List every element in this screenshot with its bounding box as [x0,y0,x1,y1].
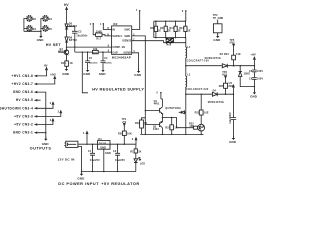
wire +5V row7 with flag [37,119,54,125]
wire drain path [186,94,201,134]
svg-text:C8: C8 [249,70,253,73]
svg-text:+5V CN3-3: +5V CN3-3 [14,114,33,118]
svg-text:CAP: CAP [112,52,118,55]
resistor R10 [169,20,181,38]
transistor Q4 [58,48,69,55]
svg-text:10u/250v: 10u/250v [76,35,88,38]
trimmer R4 [43,16,53,21]
node emitter junctions [162,117,173,119]
power flag +5V [132,137,137,144]
svg-text:ISENSE: ISENSE [122,40,132,43]
power flag HV2 row2 [37,72,56,84]
svg-text:DC POWER INPUT: DC POWER INPUT [58,182,99,186]
transistor Q1 [145,93,162,114]
node bottom rail junctions [81,171,119,173]
wire trimmer mid bus [41,19,43,37]
net flag Q1 collector [156,92,161,95]
svg-text:R8: R8 [150,27,154,30]
power flag HV top [64,3,69,10]
svg-text:R20: R20 [135,122,140,125]
svg-text:C2: C2 [113,150,117,153]
net flag bank right [182,10,187,21]
ground dc input [77,172,85,181]
svg-text:Q3 BST100A: Q3 BST100A [165,107,181,110]
svg-text:1u0/63v: 1u0/63v [104,63,112,65]
testpoint TP5 HV2 with resistor R24 [224,39,241,66]
svg-text:R1: R1 [130,151,134,154]
svg-text:LED: LED [140,162,145,165]
capacitor C2 [113,144,125,171]
svg-text:D3: D3 [220,53,224,56]
trimmer R3 [27,26,37,31]
svg-text:78L05: 78L05 [99,143,107,146]
power flag +HV output [250,53,256,70]
svg-text:10K: 10K [127,133,132,136]
wire IC pin2 SWE drive riser [132,34,146,135]
svg-text:IC2: IC2 [113,22,118,26]
resistor R22 gate [189,122,198,129]
ground C7 [229,136,237,144]
svg-text:+HV2 CN3-7: +HV2 CN3-7 [11,82,33,86]
svg-text:L2: L2 [187,73,191,76]
wire CN3 ground bus [37,92,46,138]
wire IC pin1 SWC riser to flag [132,9,141,29]
svg-text:GND: GND [213,38,221,42]
svg-text:10E: 10E [93,48,98,51]
transistor Q2 [145,122,162,135]
svg-text:1E: 1E [187,29,190,32]
ground TP2 [213,34,221,42]
diode D4 [208,90,224,104]
svg-text:GND: GND [62,72,70,76]
svg-text:R17: R17 [96,38,101,41]
connector CN3 pin arrows [34,75,38,134]
node rail junctions [145,134,202,136]
wire bottom rail dc input [78,146,136,171]
svg-text:GND: GND [77,176,85,180]
LED D1 [134,158,145,172]
svg-text:HV: HV [229,82,233,85]
svg-text:HV SET: HV SET [46,43,62,47]
svg-text:10E: 10E [204,112,209,115]
power flag +12V [83,131,88,145]
svg-text:R25: R25 [219,85,224,88]
svg-text:1K: 1K [70,62,73,65]
connector CN3 pin rows [0,74,33,135]
svg-text:R2: R2 [33,18,37,21]
svg-text:HV: HV [44,64,48,68]
node feedback junctions [74,46,76,48]
net flag 6 to IC pin6 [100,23,112,30]
wire IC pin4 agnd column [132,50,139,71]
svg-text:100V: 100V [257,70,263,73]
svg-text:10u/25V: 10u/25V [115,159,125,162]
svg-text:100u/63v: 100u/63v [89,63,99,65]
svg-text:R7A: R7A [167,43,172,46]
node wire A junctions [185,65,255,67]
svg-text:12V DC IN: 12V DC IN [58,158,75,162]
resistor R18 [93,48,99,54]
resistor R20 [135,118,148,135]
wire shutdown row with flag [37,102,54,108]
ground C5 [83,68,91,76]
node Q1 base [145,110,147,112]
node HV rail junctions [66,26,68,48]
svg-text:GND: GND [100,146,106,149]
svg-text:R3: R3 [33,28,37,31]
svg-text:15KE: 15KE [244,73,251,76]
zener D6 [65,37,77,43]
svg-text:GND CN3-6: GND CN3-6 [13,90,33,94]
connector X1 dc jack [58,141,78,161]
svg-text:R26: R26 [118,133,123,136]
svg-text:GND: GND [229,140,237,144]
wire comp feedback to IC pin5 [67,46,112,48]
regulator IC1 78L05 [98,138,111,171]
wire A main HV output rail [186,65,255,67]
svg-text:COMP -VE: COMP -VE [112,46,125,49]
resistor R1 [130,144,141,159]
net flag HV feedback [229,82,235,94]
node bus junctions [45,132,47,134]
ground IC pin4 [134,69,142,77]
ground Q4 emitter [62,67,70,76]
capacitor C1 [88,144,100,171]
svg-text:GND CN3-1: GND CN3-1 [13,131,33,135]
wire +5V row6 with flag [37,110,62,116]
resistor R8 [150,20,161,38]
net flag 2 with wire to R17 [90,23,96,35]
node wire B junctions [185,93,234,95]
transistor Q3 mosfet [198,124,205,134]
svg-text:COILCRAFT-220: COILCRAFT-220 [186,88,209,91]
resistor R19 [61,55,73,69]
svg-text:2: 2 [132,138,134,141]
wire 12V top rail [78,143,136,145]
svg-text:1K: 1K [174,126,177,129]
capacitor C9 [249,77,263,91]
svg-text:IN: IN [112,28,115,31]
svg-text:R23: R23 [195,112,200,115]
ground HV caps [250,90,258,98]
testpoint TP1 [122,118,127,144]
capacitor C4 [101,52,113,68]
wire trimmer to gnd [24,30,41,32]
svg-text:1: 1 [136,9,138,12]
capacitor C3 [67,27,88,52]
svg-text:HV CN3-5: HV CN3-5 [16,98,33,102]
svg-text:MUR140T3G: MUR140T3G [205,57,221,60]
op-amp U1 IC2 MC34063 box [112,22,132,60]
svg-text:TP_GND: TP_GND [213,17,224,20]
wire sense bank bottom rail [154,37,186,39]
resistor R17 100K [96,31,112,41]
diode D8 [179,111,186,114]
ground CN3 [42,137,50,147]
wire sense bank lower rail [164,38,186,46]
svg-text:MPSA: MPSA [58,51,66,54]
diode D3 [205,53,228,68]
svg-text:GND: GND [37,38,45,42]
wire HV rail [66,10,68,50]
capacitor C8 [249,70,263,78]
svg-text:GND: GND [105,152,111,155]
svg-text:SWE: SWE [124,35,130,38]
svg-text:C3: C3 [78,31,82,34]
svg-text:+HV: +HV [250,53,256,57]
wire IC cap rail with corner [82,52,88,93]
svg-text:HV REGULATED SUPPLY: HV REGULATED SUPPLY [92,88,144,92]
svg-text:MC34063AP: MC34063AP [112,56,131,60]
svg-text:GND: GND [250,95,258,99]
wire IC pin7 isense [132,38,164,42]
svg-text:OUTPUTS: OUTPUTS [30,146,52,150]
node trimmer mid junction [40,31,42,33]
svg-text:1: 1 [100,23,102,26]
wire sense bank top rail [154,21,186,37]
resistor R21 [165,118,177,135]
svg-text:R4: R4 [49,18,53,21]
zener D5 [65,22,77,29]
resistor R9 [160,20,171,38]
svg-text:GND: GND [99,72,107,76]
svg-text:10E: 10E [189,125,194,128]
svg-text:100V: 100V [257,78,263,81]
svg-text:AGND: AGND [123,52,131,55]
svg-text:R19: R19 [61,62,66,65]
svg-text:1uF/400V: 1uF/400V [229,112,232,124]
wire R18 net [75,51,112,53]
svg-text:IC1: IC1 [98,138,103,141]
svg-text:R18: R18 [93,53,98,55]
ground HV SET [37,34,45,42]
svg-text:C4: C4 [104,57,108,60]
svg-text:GND: GND [83,72,91,76]
svg-text:C9: C9 [249,77,253,80]
svg-text:SWC: SWC [124,28,130,31]
wire emitter node [162,114,193,128]
svg-text:47u/25V: 47u/25V [90,159,100,162]
inductor L1 [185,46,209,66]
svg-text:R24: R24 [224,53,229,56]
testpoint TP3 HV1 with resistor R25 [219,71,234,94]
svg-text:51K: 51K [236,53,241,56]
inductor L2 [185,66,208,95]
svg-text:HV2: HV2 [51,72,57,76]
svg-text:+5V CN3-2: +5V CN3-2 [14,123,33,127]
ground C4 [99,68,107,76]
node Q2 base [145,124,147,126]
node reg rail junctions [92,143,125,145]
resistor R11 [179,20,191,38]
trimmer R2 [27,16,37,21]
svg-text:MUR140T3G: MUR140T3G [208,101,224,104]
svg-text:6: 6 [182,10,184,13]
resistor R7 sense bridge [166,38,173,46]
trimmer R5 [43,26,53,31]
svg-text:C5: C5 [89,57,93,60]
svg-text:+5V REGULATOR: +5V REGULATOR [101,182,140,186]
svg-text:4403: 4403 [153,128,159,131]
resistor R23 [195,93,209,115]
svg-text:4: 4 [83,132,85,135]
svg-text:R21: R21 [165,126,170,129]
svg-text:2: 2 [90,23,92,26]
svg-text:4401: 4401 [154,103,160,106]
svg-text:R5: R5 [49,28,53,31]
svg-text:D4: D4 [213,90,217,93]
svg-text:1K: 1K [138,151,141,154]
svg-text:5: 5 [156,92,158,95]
svg-text:R11: R11 [179,27,184,30]
svg-text:L1: L1 [187,46,191,49]
svg-text:SHDN C: SHDN C [112,35,122,38]
svg-text:100K: 100K [96,31,102,34]
wire B lower output rail [186,93,234,95]
svg-text:1K: 1K [144,122,147,125]
zener D7 [239,66,255,87]
svg-text:+HV1 CN3-8: +HV1 CN3-8 [11,74,33,78]
testpoint TP2 TP_GND [213,14,224,35]
node cap rail junctions [82,51,104,53]
wire driver ground rail [140,133,203,135]
svg-text:R9: R9 [160,27,164,30]
node D7 cap junction [254,86,256,88]
wire trimmer left bus [24,19,28,32]
svg-text:SHUTDOWN CN3-4: SHUTDOWN CN3-4 [0,106,33,110]
svg-text:R10: R10 [169,27,174,30]
resistor R26 [118,131,132,136]
capacitor C7 [229,94,236,137]
svg-text:C1: C1 [88,150,92,153]
svg-text:BZT03: BZT03 [69,39,77,42]
power flag HV row1 [37,64,47,76]
capacitor C5 [85,52,98,68]
svg-text:GND: GND [134,73,142,77]
